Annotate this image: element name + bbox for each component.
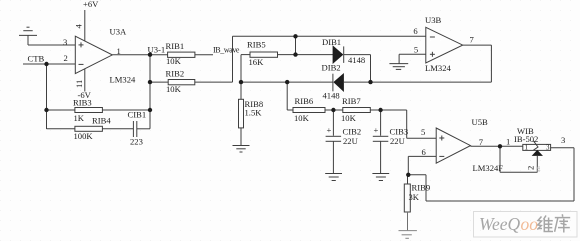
wire (233, 35, 426, 37)
svg-text:RIB6: RIB6 (295, 96, 314, 106)
svg-text:U5B: U5B (472, 117, 489, 127)
ground (399, 231, 417, 239)
wire (28, 44, 75, 46)
svg-text:DIB2: DIB2 (322, 63, 341, 73)
svg-text:1: 1 (525, 144, 529, 152)
capacitor CIB3 (373, 110, 389, 174)
wire (232, 36, 234, 82)
wire (463, 44, 492, 46)
wire (426, 200, 574, 202)
svg-text:CIB3: CIB3 (390, 127, 409, 137)
wire (406, 110, 408, 138)
op-amp U3B (426, 27, 463, 63)
wire (46, 64, 48, 129)
ground (19, 27, 37, 45)
svg-text:1: 1 (117, 46, 121, 56)
svg-text:RIB2: RIB2 (166, 69, 185, 79)
capacitor CIB2 (326, 110, 342, 174)
svg-text:10K: 10K (294, 113, 310, 123)
svg-text:1K: 1K (74, 113, 85, 123)
potentiometer WIB (523, 141, 551, 173)
svg-text:LM324: LM324 (425, 63, 451, 73)
svg-text:IB_wave: IB_wave (213, 46, 240, 55)
op-amp U5B (436, 128, 470, 163)
svg-text:+: + (374, 125, 379, 135)
watermark (474, 212, 578, 238)
wire (399, 53, 426, 55)
op-amp U3A (75, 10, 112, 92)
resistor RIB2 (150, 80, 233, 85)
svg-text:3K: 3K (409, 192, 420, 202)
svg-text:WeeQ: WeeQ (479, 214, 521, 234)
svg-text:RIB9: RIB9 (412, 183, 431, 193)
svg-text:1.5K: 1.5K (245, 108, 263, 118)
svg-text:IB-502: IB-502 (514, 134, 538, 144)
svg-text:RIB7: RIB7 (342, 96, 361, 106)
wire (471, 145, 523, 147)
svg-text:CIB2: CIB2 (343, 127, 362, 137)
svg-text:RIB5: RIB5 (247, 40, 266, 50)
svg-text:LM324: LM324 (110, 75, 136, 85)
wire (500, 171, 537, 173)
ground (389, 64, 408, 70)
svg-text:3: 3 (546, 144, 550, 152)
svg-text:6: 6 (422, 147, 427, 157)
svg-text:2: 2 (526, 166, 536, 170)
svg-text:+6V: +6V (83, 0, 99, 9)
svg-text:22U: 22U (390, 136, 406, 146)
svg-text:6: 6 (413, 26, 418, 36)
svg-text:3: 3 (63, 37, 67, 47)
resistor RIB1 (168, 52, 213, 57)
svg-text:7: 7 (470, 35, 475, 45)
svg-text:RIB4: RIB4 (92, 116, 111, 126)
svg-text:RIB1: RIB1 (166, 41, 185, 51)
wire (425, 175, 427, 201)
wire (573, 148, 575, 201)
svg-text:10K: 10K (341, 113, 357, 123)
svg-text:3: 3 (561, 135, 565, 145)
wire (408, 155, 436, 157)
resistor RIB5 (241, 52, 333, 82)
svg-text:+: + (327, 125, 332, 135)
svg-text:CTB: CTB (28, 54, 45, 64)
diode DIB1 (333, 46, 370, 63)
svg-text:RIB3: RIB3 (73, 98, 92, 108)
wire (112, 54, 167, 56)
wire (499, 146, 501, 172)
wire (241, 81, 333, 83)
svg-text:100K: 100K (74, 131, 94, 141)
ground (233, 146, 250, 153)
svg-text:U3-1: U3-1 (148, 45, 166, 55)
svg-text:sn: sn (535, 165, 542, 172)
svg-text:4148: 4148 (348, 55, 365, 65)
wire (490, 45, 492, 82)
wire (408, 174, 426, 176)
wire (286, 82, 288, 110)
svg-text:4148: 4148 (323, 91, 340, 101)
resistor RIB7 (343, 108, 407, 113)
svg-text:oo: oo (521, 214, 539, 234)
svg-text:U3A: U3A (110, 27, 128, 37)
wire (398, 54, 400, 63)
diode DIB2 (333, 74, 492, 92)
svg-text:1: 1 (506, 137, 510, 147)
wire (149, 55, 151, 129)
ground (325, 174, 342, 181)
svg-text:16K: 16K (249, 57, 265, 67)
resistor RIB6 (287, 108, 343, 113)
svg-text:10K: 10K (166, 56, 182, 66)
wire (370, 55, 372, 83)
svg-text:CIB1: CIB1 (128, 110, 147, 120)
node CTB (23, 63, 75, 65)
resistor RIB8 (239, 82, 244, 145)
wire (407, 156, 409, 174)
svg-text:2: 2 (64, 53, 68, 63)
wire (407, 137, 437, 139)
svg-text:11: 11 (74, 80, 84, 88)
svg-text:LM324F: LM324F (473, 163, 504, 173)
resistor RIB3 (47, 108, 151, 113)
svg-text:DIB1: DIB1 (322, 37, 341, 47)
ground (372, 174, 389, 181)
resistor RIB9 (404, 175, 410, 231)
svg-text:22U: 22U (343, 136, 359, 146)
wire (551, 147, 574, 149)
wire (295, 36, 297, 54)
svg-text:U3B: U3B (425, 15, 442, 25)
svg-text:7: 7 (479, 137, 484, 147)
svg-text:4: 4 (74, 24, 84, 29)
resistor RIB4 (47, 126, 134, 131)
svg-text:5: 5 (414, 44, 418, 54)
svg-text:223: 223 (130, 137, 143, 147)
svg-text:5: 5 (421, 127, 425, 137)
capacitor CIB1 (133, 121, 150, 137)
svg-text:10K: 10K (166, 84, 182, 94)
